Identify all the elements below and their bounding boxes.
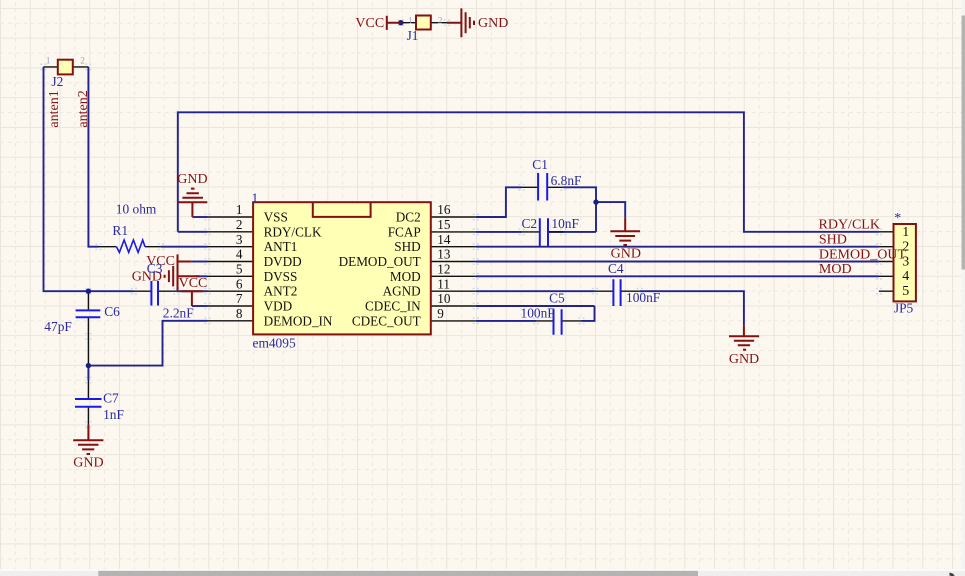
svg-text:5: 5 — [236, 262, 243, 277]
svg-text:3: 3 — [236, 232, 243, 247]
op-amp U1 em4095 IC body — [253, 202, 431, 334]
ground GND at IC pin5, bars pointing left — [165, 262, 200, 291]
capacitor C3 plates — [151, 281, 158, 306]
resistor R1 zigzag — [116, 240, 145, 252]
connector J1 body — [416, 16, 431, 30]
svg-text:10nF: 10nF — [551, 216, 579, 231]
svg-text:C7: C7 — [103, 391, 119, 406]
wire IC pin15 to C2 — [476, 231, 522, 233]
pin stubs em4095 right pins 16-9 — [431, 217, 476, 321]
svg-text:2: 2 — [438, 16, 443, 26]
svg-text:ANT1: ANT1 — [264, 239, 298, 254]
svg-text:AGND: AGND — [383, 284, 421, 299]
svg-text:14: 14 — [437, 232, 451, 247]
svg-text:8: 8 — [236, 306, 243, 321]
wire anten2: J2 pin2 down to R1 row — [88, 67, 98, 247]
wire end markers — [40, 20, 882, 427]
pin stubs J2 — [44, 66, 89, 68]
wire anten1: J2 pin1 down and right to C3 — [44, 67, 134, 291]
pin stubs C1 — [522, 186, 564, 188]
svg-text:ANT2: ANT2 — [264, 284, 298, 299]
svg-text:100nF: 100nF — [521, 306, 555, 321]
svg-text:anten2: anten2 — [76, 90, 91, 127]
svg-text:FCAP: FCAP — [388, 224, 421, 239]
svg-text:1: 1 — [408, 16, 413, 26]
wire GND to IC pin5 — [196, 275, 208, 277]
ground GND at C1/C2 node — [610, 217, 640, 245]
svg-text:100nF: 100nF — [626, 290, 660, 305]
wire IC pin13 DEMOD_OUT to JP5 pin3 — [476, 261, 879, 263]
svg-text:C4: C4 — [608, 261, 624, 276]
svg-text:1nF: 1nF — [103, 407, 124, 422]
wire IC pin9 to C5 — [476, 320, 536, 322]
wire IC pin10 row — [476, 305, 595, 307]
svg-text:10: 10 — [437, 291, 451, 306]
capacitor C4 plates — [613, 279, 620, 306]
horizontal scrollbar arrow — [950, 573, 956, 576]
capacitor C1 plates — [538, 173, 547, 201]
svg-text:SHD: SHD — [394, 239, 420, 254]
svg-text:2.2nF: 2.2nF — [163, 305, 194, 320]
svg-text:J1: J1 — [407, 28, 419, 43]
vertical scrollbar thumb — [962, 16, 965, 270]
svg-text:MOD: MOD — [390, 269, 421, 284]
wire pin2 to IC — [178, 231, 208, 233]
svg-text:5: 5 — [902, 284, 909, 299]
svg-text:VDD: VDD — [264, 299, 293, 314]
svg-text:MOD: MOD — [819, 262, 852, 277]
svg-text:RDY/CLK: RDY/CLK — [819, 218, 880, 233]
pin stubs R1 — [99, 246, 161, 248]
pin stubs JP5 pins 1-5 — [879, 232, 894, 291]
pin stubs C5 — [536, 320, 582, 322]
wire GND stub to pin1 — [192, 216, 207, 218]
svg-text:CDEC_IN: CDEC_IN — [365, 299, 421, 314]
pin stubs C7 — [87, 380, 89, 425]
power port VCC at IC pin7: bar on pin6 wire, stem down — [181, 291, 203, 306]
wire IC pin8 row to node below C6 — [88, 321, 207, 366]
svg-text:2: 2 — [236, 217, 243, 232]
svg-text:DVSS: DVSS — [264, 269, 298, 284]
capacitor C2 plates — [540, 218, 548, 246]
svg-text:4: 4 — [902, 269, 909, 284]
pin stubs C2 — [522, 231, 564, 233]
svg-text:DEMOD_OUT: DEMOD_OUT — [339, 254, 421, 269]
svg-text:15: 15 — [437, 217, 451, 232]
ground GND above IC pin1, bars upward — [178, 189, 208, 217]
svg-text:C3: C3 — [147, 261, 163, 276]
power port VCC at J1: bar and stem — [387, 16, 401, 30]
pin stubs C3 — [134, 290, 177, 292]
svg-text:6: 6 — [236, 276, 243, 291]
wire junction to GND symbol — [596, 202, 625, 217]
wire VCC to IC pin7 — [192, 305, 208, 307]
svg-text:JP5: JP5 — [894, 300, 914, 315]
pin stubs em4095 left pins 1-8 — [208, 217, 254, 321]
svg-text:C5: C5 — [549, 290, 565, 305]
junction dot C1/C2/GND node — [593, 199, 598, 204]
wire VCC to IC pin4 — [192, 261, 208, 263]
pin stubs C6 — [87, 291, 89, 365]
svg-text:13: 13 — [437, 247, 451, 262]
power port VCC at IC pin4 — [178, 254, 192, 268]
svg-text:RDY/CLK: RDY/CLK — [264, 224, 322, 239]
wire C5 right, elbow up to pin10 row — [582, 306, 595, 321]
wire RDY/CLK bus: IC pin2 up, across top, down to JP5 pin1 — [178, 112, 879, 232]
wire C4 right to GND drop — [640, 291, 744, 325]
svg-text:DEMOD_OUT: DEMOD_OUT — [819, 247, 907, 262]
pin stubs J1 — [401, 22, 447, 24]
wire R1 right to IC pin3 — [161, 246, 208, 248]
svg-text:10 ohm: 10 ohm — [116, 202, 157, 217]
svg-text:1: 1 — [236, 202, 243, 217]
wire C3 to IC pin6 — [176, 290, 207, 292]
svg-text:VCC: VCC — [179, 276, 208, 291]
wire C1 right to GND junction — [563, 187, 596, 232]
junction dot J1/VCC node — [398, 20, 403, 25]
junction dot antenna node at C6 top — [86, 289, 91, 294]
wire IC pin12 MOD to JP5 pin4 — [476, 275, 879, 277]
ground GND below C7 — [73, 425, 103, 454]
ground GND at J1, bars pointing right — [447, 8, 474, 37]
svg-text:7: 7 — [236, 291, 243, 306]
svg-text:GND: GND — [73, 456, 103, 471]
svg-text:GND: GND — [478, 16, 508, 31]
capacitor C6 plates — [76, 310, 101, 317]
svg-text:GND: GND — [611, 246, 641, 261]
connector J2 body — [58, 60, 73, 75]
wire IC pin14 SHD to JP5 pin2 — [476, 246, 879, 248]
horizontal scrollbar thumb — [98, 571, 698, 576]
capacitor C5 plates — [554, 309, 562, 335]
svg-text:DEMOD_IN: DEMOD_IN — [264, 313, 333, 328]
capacitor C7 plates — [75, 399, 102, 407]
svg-text:*: * — [894, 211, 901, 226]
svg-text:C1: C1 — [532, 157, 548, 172]
ground GND right of C4 — [729, 326, 759, 350]
svg-text:47pF: 47pF — [44, 319, 72, 334]
svg-text:em4095: em4095 — [253, 336, 296, 351]
svg-text:1: 1 — [252, 191, 259, 206]
junction dot node below C6 — [86, 363, 91, 368]
svg-text:C6: C6 — [104, 304, 120, 319]
svg-text:anten1: anten1 — [47, 90, 62, 127]
svg-text:GND: GND — [729, 352, 759, 367]
svg-text:VCC: VCC — [355, 16, 384, 31]
svg-text:1: 1 — [46, 56, 51, 66]
svg-text:CDEC_OUT: CDEC_OUT — [352, 313, 421, 328]
svg-text:4: 4 — [236, 247, 243, 262]
svg-text:C2: C2 — [522, 216, 538, 231]
svg-text:SHD: SHD — [819, 233, 847, 248]
svg-text:VSS: VSS — [264, 210, 288, 225]
pin stubs C4 — [595, 290, 640, 292]
svg-text:GND: GND — [177, 172, 207, 187]
svg-text:12: 12 — [437, 262, 450, 277]
wire IC pin16 to C1 — [476, 187, 522, 217]
svg-text:16: 16 — [437, 202, 451, 217]
svg-text:2: 2 — [80, 56, 85, 66]
wire IC pin11 to C4 — [476, 290, 595, 292]
em4095 notch — [313, 202, 371, 217]
svg-text:R1: R1 — [112, 223, 128, 238]
svg-text:11: 11 — [437, 276, 450, 291]
svg-text:1: 1 — [902, 225, 909, 240]
svg-text:J2: J2 — [51, 74, 63, 89]
wire node below C6 down to C7 — [87, 366, 89, 380]
svg-text:6.8nF: 6.8nF — [551, 173, 582, 188]
svg-text:9: 9 — [437, 306, 444, 321]
connector JP5 body — [894, 224, 916, 301]
svg-text:DC2: DC2 — [396, 210, 421, 225]
svg-text:DVDD: DVDD — [264, 254, 302, 269]
wire C2 right side — [548, 231, 596, 233]
